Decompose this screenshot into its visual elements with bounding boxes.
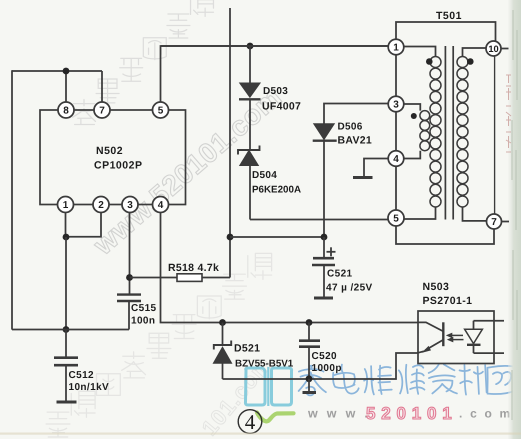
D506 label (338, 122, 363, 133)
svg-text:1000p: 1000p (312, 363, 342, 374)
diode D504 (zener) (238, 146, 260, 220)
svg-text:BZV55-B5V1: BZV55-B5V1 (235, 359, 294, 370)
D506 value BAV21 (338, 135, 373, 147)
svg-text:4: 4 (245, 410, 256, 434)
pin 2 (93, 197, 109, 213)
svg-text:520101: 520101 (366, 404, 458, 423)
svg-text:P6KE200A: P6KE200A (252, 185, 301, 196)
N503 value PS2701-1 (423, 295, 473, 307)
wire opto LED anode out (474, 320, 505, 322)
svg-text:1: 1 (63, 200, 69, 211)
node junction (66,237) (63, 234, 70, 241)
wire R518 left lead (130, 277, 178, 279)
svg-text:C512: C512 (69, 370, 95, 381)
wire D521 top lead (222, 323, 224, 345)
svg-text:2: 2 (98, 200, 104, 211)
C512 value 10n/1kV (69, 382, 110, 393)
wire terminal4 left (364, 159, 388, 177)
node junction (309,322.5) (306, 319, 313, 326)
svg-text:BAV21: BAV21 (338, 135, 373, 147)
logo cyan book icon (245, 367, 291, 406)
scan shadow right edge (508, 0, 521, 439)
svg-text:5: 5 (158, 106, 164, 117)
wire primary bottom (404, 207, 436, 219)
wire 3-4 (395, 112, 397, 151)
core of T501 (445, 46, 453, 220)
D504 value P6KE200A (252, 185, 301, 196)
wire x=230 vertical stub (229, 8, 231, 278)
svg-text:4: 4 (393, 154, 399, 165)
C521 label (327, 269, 353, 280)
node junction (324,237) (321, 234, 328, 241)
wire x=66 down to ground bus (65, 237, 67, 330)
svg-text:PS2701-1: PS2701-1 (423, 295, 473, 307)
D521 label (234, 343, 260, 355)
pin 1 (58, 197, 74, 213)
wire terminal1 right (404, 47, 436, 57)
opto LED (465, 321, 483, 353)
node junction (250,46) (247, 43, 254, 50)
N503 label (423, 281, 450, 293)
page number circled 4 (238, 410, 262, 434)
wire pin8 riser (65, 71, 67, 103)
winding 3-4 bottom lead (404, 151, 421, 159)
svg-text:CP1002P: CP1002P (94, 160, 142, 172)
D521 value BZV55-B5V1 (235, 359, 294, 370)
pin 5 (153, 102, 169, 118)
wire pin1 down (65, 213, 67, 238)
terminal 7 (487, 214, 502, 229)
wire opto LED cathode out (474, 352, 505, 354)
svg-text:47 µ /25V: 47 µ /25V (326, 283, 373, 294)
D504 label (252, 170, 277, 181)
svg-text:1: 1 (393, 43, 399, 54)
C520 value 1000p (312, 363, 342, 374)
wire top-left rail y=71 (12, 70, 102, 72)
svg-text:3: 3 (127, 200, 133, 211)
wire terminal3 left (324, 104, 388, 125)
diode D506 (313, 124, 337, 141)
wire terminal1 left (161, 45, 388, 47)
svg-text:. c o m: . c o m (459, 407, 512, 421)
terminal 5 (388, 210, 404, 226)
wire y=219.5 to pin5 of T501 (250, 219, 388, 221)
wire pin4 down (161, 213, 419, 323)
winding 3-4 top lead (404, 104, 421, 111)
node junction (309,379) (306, 375, 313, 382)
polarity dot winding 3-4 (411, 113, 417, 119)
ground bar near T501 pin4 (353, 176, 373, 179)
resistor R518 (177, 274, 202, 282)
C512 label (69, 370, 95, 381)
node junction (66,329) (63, 326, 70, 333)
C515 label (131, 303, 157, 314)
C515 value 100n (131, 316, 155, 327)
svg-text:100n: 100n (131, 316, 155, 327)
svg-text:10: 10 (488, 44, 498, 54)
wire pin2 down-left (66, 213, 101, 237)
wire pin3 down (129, 213, 131, 294)
wire D503-D504 link (249, 99, 251, 149)
IC N502 label (96, 145, 123, 157)
pin 8 (58, 102, 74, 118)
terminal 3 (388, 96, 404, 112)
svg-text:N502: N502 (96, 145, 123, 157)
svg-text:7: 7 (491, 217, 497, 228)
wire R518 right lead (202, 277, 230, 279)
wire left rail x=12 (11, 70, 13, 329)
wire D503 anode lead (249, 46, 251, 83)
node junction (222.5,322.5) (219, 319, 226, 326)
polarity dot primary (426, 58, 433, 65)
svg-text:D504: D504 (252, 170, 277, 181)
terminal 4 (388, 151, 404, 167)
D503 value UF4007 (262, 101, 301, 113)
primary winding of T501 (430, 57, 441, 208)
wire terminal7 stub (502, 221, 510, 223)
wire y=379 bus (223, 353, 419, 379)
wire ground bus y=329 (12, 329, 129, 331)
terminal 10 (486, 41, 501, 56)
wire pin7 riser (101, 71, 103, 103)
svg-text:C521: C521 (327, 269, 353, 280)
wire terminal10-terminal7 link (494, 56, 496, 214)
wire terminal5 to terminal7 bottom (396, 226, 494, 244)
svg-text:5: 5 (393, 214, 399, 225)
svg-text:w w w .: w w w . (307, 407, 371, 421)
scan line bottom edge (0, 433, 521, 435)
capacitor C521 (312, 237, 335, 298)
wire secondary bottom (463, 207, 487, 221)
capacitor C512 (54, 330, 78, 403)
opto phototransistor collector (418, 322, 443, 331)
svg-text:D521: D521 (234, 343, 260, 355)
ground at C520 (303, 379, 317, 393)
capacitor C515 (117, 295, 141, 330)
terminal 1 (388, 39, 404, 55)
svg-text:4: 4 (158, 200, 164, 211)
winding 3-4 of T501 (420, 111, 430, 151)
svg-text:C515: C515 (131, 303, 157, 314)
wire terminal10 stub (501, 48, 509, 50)
pin 7 (94, 102, 110, 118)
pin 4 (153, 197, 169, 213)
secondary winding of T501 (457, 57, 468, 208)
wire y=237 link (230, 236, 324, 238)
opto phototransistor emitter (418, 340, 443, 353)
svg-text:10n/1kV: 10n/1kV (69, 382, 110, 393)
op-amp/IC N502 body (40, 110, 186, 205)
svg-text:R518 4.7k: R518 4.7k (168, 262, 219, 274)
polarity dot secondary (467, 58, 474, 65)
optocoupler N503 box (418, 311, 494, 364)
capacitor C521 plus sign (327, 247, 336, 256)
watermark gray CJK diagonal bottom-left (faint) (46, 253, 272, 437)
svg-text:D503: D503 (263, 86, 288, 97)
node junction (230,237) (227, 234, 234, 241)
svg-text:7: 7 (99, 106, 105, 117)
svg-text:D506: D506 (338, 122, 363, 133)
wire D506 down (323, 141, 325, 237)
node junction (129.5,277.5) (126, 274, 133, 281)
R518 label (168, 262, 219, 274)
opto light arrows (446, 333, 464, 343)
D503 label (263, 86, 288, 97)
C520 label (312, 351, 338, 362)
wire 1-3 (395, 55, 397, 96)
diode D521 (zener) (214, 341, 231, 380)
C521 value 47u/25V (326, 283, 373, 294)
IC CP1002P label (94, 160, 142, 172)
node junction (66,71) (63, 68, 70, 75)
logo green swoosh (257, 413, 294, 422)
wire 4-5 (395, 166, 397, 210)
pin 3 (122, 197, 138, 213)
watermark gray CJK diagonal top-left (73, 0, 238, 125)
T501 label (436, 10, 462, 22)
svg-text:T501: T501 (436, 10, 462, 22)
svg-text:3: 3 (393, 100, 399, 111)
wire T501 top frame (396, 22, 496, 42)
opto phototransistor bar (442, 322, 444, 346)
diode D503 (239, 83, 261, 99)
svg-text:N503: N503 (423, 281, 450, 293)
wire secondary top (463, 48, 487, 56)
watermark blue CJK band bottom (297, 364, 515, 396)
svg-text:8: 8 (63, 106, 69, 117)
svg-text:UF4007: UF4007 (262, 101, 301, 113)
wire pin5 riser (161, 46, 389, 103)
svg-text:C520: C520 (312, 351, 338, 362)
capacitor C520 (299, 323, 320, 379)
